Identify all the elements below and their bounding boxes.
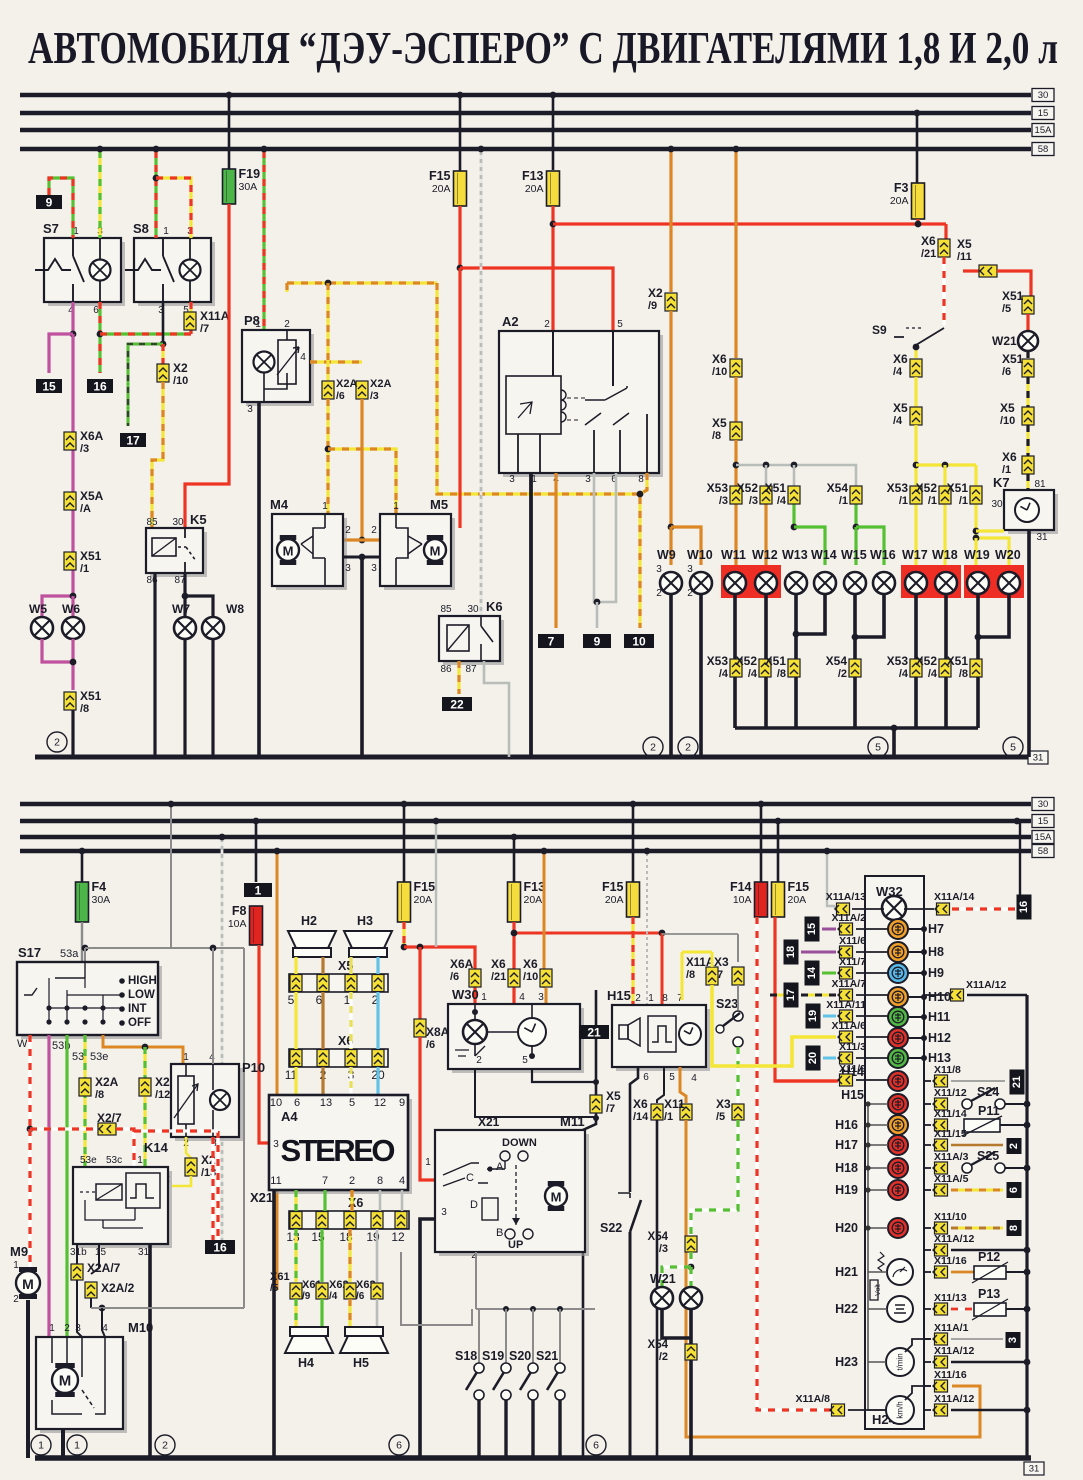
svg-text:4: 4 bbox=[519, 992, 525, 1003]
svg-text:2: 2 bbox=[476, 1055, 482, 1066]
svg-text:/1: /1 bbox=[899, 495, 908, 507]
svg-text:P10: P10 bbox=[242, 1060, 265, 1075]
svg-text:/5: /5 bbox=[716, 1111, 725, 1123]
svg-text:15: 15 bbox=[95, 1247, 107, 1258]
svg-text:X11/16: X11/16 bbox=[934, 1369, 967, 1381]
svg-text:F15: F15 bbox=[602, 880, 624, 894]
svg-text:H22: H22 bbox=[835, 1302, 858, 1316]
svg-text:30: 30 bbox=[172, 517, 184, 528]
svg-text:X11A/1: X11A/1 bbox=[934, 1322, 969, 1334]
svg-text:/2: /2 bbox=[838, 668, 847, 680]
svg-text:3: 3 bbox=[273, 1139, 279, 1150]
svg-text:3: 3 bbox=[441, 1207, 447, 1218]
svg-text:X6: X6 bbox=[523, 957, 538, 971]
svg-text:S7: S7 bbox=[43, 221, 59, 236]
svg-text:H16: H16 bbox=[835, 1118, 858, 1132]
svg-text:W9: W9 bbox=[657, 548, 676, 562]
svg-text:58: 58 bbox=[1038, 144, 1049, 155]
svg-text:/7: /7 bbox=[606, 1103, 615, 1115]
svg-text:F13: F13 bbox=[522, 169, 544, 183]
svg-text:H20: H20 bbox=[835, 1221, 858, 1235]
svg-text:/9: /9 bbox=[302, 1291, 311, 1302]
svg-text:X5: X5 bbox=[1000, 401, 1015, 415]
svg-text:F14: F14 bbox=[730, 880, 752, 894]
svg-text:/4: /4 bbox=[899, 668, 909, 680]
svg-text:X6: X6 bbox=[921, 234, 936, 248]
svg-text:/4: /4 bbox=[893, 366, 903, 378]
svg-text:15A: 15A bbox=[1035, 125, 1053, 136]
svg-text:W10: W10 bbox=[687, 548, 713, 562]
svg-text:K14: K14 bbox=[144, 1140, 169, 1155]
svg-text:X52: X52 bbox=[916, 481, 938, 495]
svg-text:2: 2 bbox=[687, 588, 693, 599]
svg-text:8: 8 bbox=[638, 474, 644, 485]
svg-text:X11A/7: X11A/7 bbox=[832, 978, 867, 990]
svg-text:30A: 30A bbox=[92, 894, 111, 906]
svg-text:X11/6: X11/6 bbox=[839, 935, 866, 947]
svg-text:/4: /4 bbox=[748, 668, 758, 680]
svg-text:F3: F3 bbox=[894, 181, 909, 195]
svg-text:H10: H10 bbox=[928, 990, 951, 1004]
svg-text:X5: X5 bbox=[957, 237, 972, 251]
svg-text:X11/12: X11/12 bbox=[934, 1087, 967, 1099]
svg-text:H21: H21 bbox=[835, 1265, 858, 1279]
svg-text:20A: 20A bbox=[525, 183, 544, 195]
svg-text:4: 4 bbox=[691, 1073, 697, 1084]
svg-text:1: 1 bbox=[481, 992, 487, 1003]
svg-text:P11: P11 bbox=[978, 1104, 1000, 1118]
svg-text:X6: X6 bbox=[633, 1097, 648, 1111]
svg-text:9: 9 bbox=[399, 1097, 405, 1109]
svg-text:X53: X53 bbox=[887, 654, 909, 668]
svg-text:H8: H8 bbox=[928, 945, 944, 959]
svg-text:14: 14 bbox=[806, 966, 818, 979]
svg-text:12: 12 bbox=[391, 1230, 405, 1244]
svg-text:H17: H17 bbox=[835, 1138, 858, 1152]
svg-text:31: 31 bbox=[1036, 532, 1048, 543]
svg-text:17: 17 bbox=[126, 434, 140, 448]
svg-text:X11/9: X11/9 bbox=[839, 1063, 866, 1075]
svg-text:X11A/12: X11A/12 bbox=[934, 1233, 974, 1245]
svg-text:/8: /8 bbox=[959, 668, 968, 680]
svg-text:85: 85 bbox=[440, 604, 452, 615]
svg-text:2: 2 bbox=[650, 742, 656, 754]
svg-text:4: 4 bbox=[399, 1175, 405, 1187]
svg-text:M9: M9 bbox=[10, 1244, 28, 1259]
svg-text:8: 8 bbox=[1008, 1225, 1020, 1231]
svg-text:5: 5 bbox=[288, 993, 295, 1007]
svg-text:/14: /14 bbox=[633, 1111, 649, 1123]
svg-text:X11A/14: X11A/14 bbox=[934, 891, 974, 903]
svg-text:3: 3 bbox=[345, 563, 351, 574]
svg-text:W18: W18 bbox=[932, 548, 958, 562]
svg-text:/3: /3 bbox=[659, 1243, 668, 1255]
svg-text:6: 6 bbox=[1008, 1187, 1020, 1193]
svg-text:/1: /1 bbox=[839, 495, 848, 507]
svg-text:X11A/11: X11A/11 bbox=[826, 999, 866, 1011]
svg-text:20A: 20A bbox=[890, 195, 909, 207]
svg-text:/1: /1 bbox=[928, 495, 937, 507]
svg-text:W7: W7 bbox=[172, 602, 190, 616]
svg-text:/6: /6 bbox=[1002, 366, 1011, 378]
svg-text:X11A/6: X11A/6 bbox=[832, 1020, 867, 1032]
svg-text:/8: /8 bbox=[95, 1089, 104, 1101]
svg-text:4: 4 bbox=[102, 1323, 108, 1334]
svg-text:3: 3 bbox=[371, 563, 377, 574]
svg-text:M: M bbox=[283, 544, 294, 559]
svg-text:A2: A2 bbox=[502, 314, 519, 329]
svg-text:W5: W5 bbox=[29, 602, 47, 616]
svg-text:S22: S22 bbox=[600, 1221, 622, 1235]
svg-text:H18: H18 bbox=[835, 1161, 858, 1175]
svg-text:/A: /A bbox=[80, 503, 91, 515]
svg-text:20A: 20A bbox=[524, 894, 543, 906]
svg-text:H23: H23 bbox=[835, 1355, 858, 1369]
svg-text:3: 3 bbox=[656, 564, 662, 575]
svg-text:P13: P13 bbox=[978, 1287, 1000, 1301]
svg-text:12: 12 bbox=[374, 1097, 386, 1109]
svg-text:M: M bbox=[551, 1190, 562, 1205]
svg-text:8: 8 bbox=[662, 993, 668, 1004]
svg-text:D: D bbox=[470, 1199, 478, 1211]
svg-text:K6: K6 bbox=[486, 599, 503, 614]
svg-text:X6: X6 bbox=[348, 1196, 363, 1210]
svg-text:16: 16 bbox=[213, 1241, 227, 1255]
svg-text:3: 3 bbox=[75, 1323, 81, 1334]
svg-text:/10: /10 bbox=[523, 971, 538, 983]
svg-text:H15: H15 bbox=[841, 1088, 864, 1102]
svg-text:X51: X51 bbox=[1002, 352, 1024, 366]
svg-text:2: 2 bbox=[349, 1175, 355, 1187]
svg-text:16: 16 bbox=[93, 380, 107, 394]
svg-text:W13: W13 bbox=[782, 548, 808, 562]
svg-text:4: 4 bbox=[300, 352, 306, 363]
svg-text:1: 1 bbox=[255, 884, 262, 898]
svg-text:A: A bbox=[496, 1161, 504, 1173]
svg-text:19: 19 bbox=[807, 1010, 819, 1022]
svg-text:/8: /8 bbox=[712, 430, 721, 442]
svg-text:/11: /11 bbox=[957, 251, 972, 263]
svg-text:F15: F15 bbox=[429, 169, 451, 183]
svg-text:1: 1 bbox=[38, 1440, 44, 1452]
svg-text:X11/10: X11/10 bbox=[934, 1211, 967, 1223]
svg-text:1: 1 bbox=[393, 501, 399, 512]
svg-text:F15: F15 bbox=[788, 880, 810, 894]
svg-text:X11/16: X11/16 bbox=[934, 1255, 967, 1267]
svg-text:2: 2 bbox=[64, 1323, 70, 1334]
svg-text:X11/13: X11/13 bbox=[934, 1292, 967, 1304]
svg-text:H15: H15 bbox=[607, 988, 631, 1003]
svg-text:X52: X52 bbox=[736, 654, 758, 668]
svg-text:5: 5 bbox=[1010, 742, 1016, 754]
svg-text:M: M bbox=[59, 1373, 72, 1390]
svg-text:X11/7: X11/7 bbox=[839, 956, 866, 968]
svg-text:10: 10 bbox=[632, 635, 646, 649]
svg-text:X11A/13: X11A/13 bbox=[826, 891, 866, 903]
svg-text:S20: S20 bbox=[509, 1349, 531, 1363]
svg-text:1: 1 bbox=[13, 1260, 19, 1271]
svg-text:F13: F13 bbox=[524, 880, 546, 894]
svg-text:W6: W6 bbox=[62, 602, 80, 616]
svg-text:X53: X53 bbox=[887, 481, 909, 495]
svg-text:X11A: X11A bbox=[200, 309, 230, 323]
svg-text:W17: W17 bbox=[902, 548, 928, 562]
svg-text:X11A/2: X11A/2 bbox=[832, 912, 867, 924]
svg-text:1: 1 bbox=[137, 1155, 143, 1166]
svg-text:1: 1 bbox=[425, 1157, 431, 1168]
svg-text:15A: 15A bbox=[1035, 832, 1053, 843]
svg-text:АВТОМОБИЛЯ “ДЭУ-ЭСПЕРО” С ДВИГ: АВТОМОБИЛЯ “ДЭУ-ЭСПЕРО” С ДВИГАТЕЛЯМИ 1,… bbox=[28, 23, 1058, 73]
svg-text:53a: 53a bbox=[60, 948, 79, 960]
svg-text:30: 30 bbox=[1038, 90, 1049, 101]
svg-text:/6: /6 bbox=[450, 971, 459, 983]
svg-text:30A: 30A bbox=[239, 181, 258, 193]
svg-text:53e: 53e bbox=[80, 1155, 97, 1166]
svg-text:2: 2 bbox=[54, 737, 60, 749]
svg-text:20A: 20A bbox=[605, 894, 624, 906]
svg-text:6: 6 bbox=[93, 305, 99, 316]
svg-text:/8: /8 bbox=[80, 703, 89, 715]
svg-text:X8A: X8A bbox=[426, 1025, 450, 1039]
svg-text:W19: W19 bbox=[964, 548, 990, 562]
svg-text:X52: X52 bbox=[737, 481, 759, 495]
svg-text:X51: X51 bbox=[80, 689, 102, 703]
svg-text:1: 1 bbox=[183, 1052, 189, 1063]
svg-text:INT: INT bbox=[128, 1003, 147, 1015]
svg-text:30: 30 bbox=[467, 604, 479, 615]
svg-text:15: 15 bbox=[1038, 816, 1049, 827]
svg-text:/9: /9 bbox=[648, 300, 657, 312]
svg-text:X5A: X5A bbox=[80, 489, 104, 503]
svg-text:C: C bbox=[466, 1172, 474, 1184]
svg-text:X51: X51 bbox=[947, 654, 969, 668]
svg-text:X2: X2 bbox=[648, 286, 663, 300]
svg-text:/4: /4 bbox=[928, 668, 938, 680]
svg-text:X2: X2 bbox=[155, 1075, 170, 1089]
svg-text:3: 3 bbox=[687, 564, 693, 575]
svg-text:HIGH: HIGH bbox=[128, 975, 157, 987]
svg-text:H9: H9 bbox=[928, 966, 944, 980]
svg-text:UP: UP bbox=[508, 1239, 523, 1251]
svg-text:/6: /6 bbox=[356, 1291, 365, 1302]
svg-text:H2: H2 bbox=[301, 914, 317, 928]
svg-text:/1: /1 bbox=[664, 1111, 673, 1123]
svg-text:6: 6 bbox=[593, 1440, 599, 1452]
svg-text:/8: /8 bbox=[777, 668, 786, 680]
svg-text:W8: W8 bbox=[226, 602, 244, 616]
svg-text:S8: S8 bbox=[133, 221, 149, 236]
svg-text:3: 3 bbox=[585, 474, 591, 485]
svg-text:P12: P12 bbox=[978, 1250, 1000, 1264]
svg-text:X51: X51 bbox=[765, 654, 787, 668]
svg-text:X11/15: X11/15 bbox=[934, 1128, 967, 1140]
svg-text:X53: X53 bbox=[707, 481, 729, 495]
svg-text:86: 86 bbox=[440, 664, 452, 675]
svg-text:9: 9 bbox=[46, 196, 53, 210]
svg-text:1: 1 bbox=[49, 1323, 55, 1334]
svg-text:15: 15 bbox=[42, 380, 56, 394]
svg-text:31b: 31b bbox=[70, 1247, 87, 1258]
svg-text:X2: X2 bbox=[173, 361, 188, 375]
svg-text:K5: K5 bbox=[190, 512, 207, 527]
svg-text:X51: X51 bbox=[1002, 289, 1024, 303]
svg-text:W21: W21 bbox=[650, 1272, 676, 1286]
svg-text:/3: /3 bbox=[80, 443, 89, 455]
svg-text:X2A: X2A bbox=[336, 378, 357, 390]
svg-text:S17: S17 bbox=[18, 945, 41, 960]
svg-text:3: 3 bbox=[509, 474, 515, 485]
svg-text:30: 30 bbox=[1038, 799, 1049, 810]
svg-text:20A: 20A bbox=[432, 183, 451, 195]
svg-text:X5: X5 bbox=[893, 401, 908, 415]
svg-text:/3: /3 bbox=[719, 495, 728, 507]
svg-text:X2A/2: X2A/2 bbox=[101, 1281, 135, 1295]
svg-text:5: 5 bbox=[617, 319, 623, 330]
svg-text:2: 2 bbox=[284, 319, 290, 330]
svg-text:M: M bbox=[430, 544, 441, 559]
svg-text:M5: M5 bbox=[430, 497, 448, 512]
svg-text:/8: /8 bbox=[686, 969, 695, 981]
svg-text:53c: 53c bbox=[106, 1155, 122, 1166]
svg-text:X11: X11 bbox=[664, 1097, 685, 1111]
svg-text:X11A/12: X11A/12 bbox=[934, 1345, 974, 1357]
svg-text:21: 21 bbox=[587, 1026, 601, 1040]
svg-text:21: 21 bbox=[1011, 1076, 1023, 1088]
svg-text:H5: H5 bbox=[353, 1356, 369, 1370]
svg-text:H11: H11 bbox=[928, 1010, 950, 1024]
svg-text:2: 2 bbox=[656, 588, 662, 599]
svg-text:13: 13 bbox=[320, 1097, 332, 1109]
svg-text:X21: X21 bbox=[250, 1190, 273, 1205]
svg-text:H4: H4 bbox=[298, 1356, 314, 1370]
svg-text:/1: /1 bbox=[959, 495, 968, 507]
svg-text:2: 2 bbox=[685, 742, 691, 754]
svg-text:3: 3 bbox=[247, 404, 253, 415]
svg-text:S9: S9 bbox=[872, 323, 887, 337]
svg-text:6: 6 bbox=[396, 1440, 402, 1452]
svg-text:2: 2 bbox=[13, 1294, 19, 1305]
svg-text:58: 58 bbox=[1038, 846, 1049, 857]
svg-text:7: 7 bbox=[548, 635, 555, 649]
svg-text:/21: /21 bbox=[491, 971, 506, 983]
svg-text:STEREO: STEREO bbox=[281, 1133, 396, 1168]
svg-text:X51: X51 bbox=[765, 481, 787, 495]
svg-text:km/h: km/h bbox=[896, 1401, 905, 1418]
svg-text:6: 6 bbox=[294, 1097, 300, 1109]
svg-text:W30: W30 bbox=[452, 987, 479, 1002]
svg-text:S21: S21 bbox=[536, 1349, 558, 1363]
svg-text:X6: X6 bbox=[712, 352, 727, 366]
svg-text:X6A: X6A bbox=[80, 429, 104, 443]
svg-text:X21: X21 bbox=[478, 1115, 500, 1129]
svg-text:/2: /2 bbox=[659, 1351, 668, 1363]
svg-text:A4: A4 bbox=[281, 1109, 298, 1124]
svg-text:/21: /21 bbox=[921, 248, 936, 260]
svg-text:X6: X6 bbox=[1002, 450, 1017, 464]
svg-text:2: 2 bbox=[162, 1440, 168, 1452]
svg-text:X51: X51 bbox=[80, 549, 102, 563]
svg-text:2: 2 bbox=[345, 525, 351, 536]
svg-text:1: 1 bbox=[648, 993, 654, 1004]
svg-text:F19: F19 bbox=[239, 167, 261, 181]
svg-text:1: 1 bbox=[163, 226, 169, 237]
svg-text:B: B bbox=[496, 1227, 503, 1239]
svg-text:K7: K7 bbox=[993, 475, 1010, 490]
svg-text:20A: 20A bbox=[414, 894, 433, 906]
svg-text:/6: /6 bbox=[336, 390, 345, 402]
svg-text:H19: H19 bbox=[835, 1183, 858, 1197]
svg-text:/6: /6 bbox=[426, 1039, 435, 1051]
svg-text:30: 30 bbox=[991, 499, 1003, 510]
svg-text:3: 3 bbox=[1007, 1337, 1019, 1343]
svg-text:1: 1 bbox=[255, 319, 261, 330]
svg-text:M11: M11 bbox=[560, 1114, 585, 1129]
svg-text:X54: X54 bbox=[648, 1339, 669, 1351]
svg-text:H12: H12 bbox=[928, 1031, 951, 1045]
svg-text:S19: S19 bbox=[482, 1349, 504, 1363]
svg-text:X11/3: X11/3 bbox=[839, 1041, 866, 1053]
svg-text:W21: W21 bbox=[992, 334, 1017, 348]
svg-text:/4: /4 bbox=[893, 415, 903, 427]
svg-text:X2A: X2A bbox=[95, 1075, 119, 1089]
svg-text:X5: X5 bbox=[606, 1089, 621, 1103]
svg-text:7: 7 bbox=[322, 1175, 328, 1187]
svg-text:t/min: t/min bbox=[896, 1353, 905, 1370]
svg-text:81: 81 bbox=[1034, 479, 1046, 490]
svg-text:X54: X54 bbox=[648, 1231, 669, 1243]
svg-text:W: W bbox=[17, 1038, 28, 1050]
svg-text:/3: /3 bbox=[370, 390, 379, 402]
svg-text:X11A/3: X11A/3 bbox=[934, 1151, 969, 1163]
svg-text:85: 85 bbox=[146, 517, 158, 528]
svg-text:M: M bbox=[22, 1276, 34, 1292]
svg-text:X3: X3 bbox=[716, 1097, 731, 1111]
svg-text:F4: F4 bbox=[92, 880, 107, 894]
svg-text:22: 22 bbox=[450, 698, 464, 712]
svg-text:X61: X61 bbox=[270, 1271, 290, 1283]
svg-text:2: 2 bbox=[1008, 1143, 1020, 1149]
svg-text:8: 8 bbox=[377, 1175, 383, 1187]
svg-text:S23: S23 bbox=[716, 997, 738, 1011]
svg-text:W15: W15 bbox=[841, 548, 867, 562]
svg-text:20: 20 bbox=[807, 1052, 819, 1064]
svg-text:X53: X53 bbox=[707, 654, 729, 668]
svg-text:/3: /3 bbox=[749, 495, 758, 507]
svg-text:3: 3 bbox=[538, 992, 544, 1003]
svg-text:OFF: OFF bbox=[128, 1017, 151, 1029]
svg-text:F15: F15 bbox=[414, 880, 436, 894]
svg-text:M10: M10 bbox=[128, 1320, 153, 1335]
svg-text:/10: /10 bbox=[712, 366, 727, 378]
svg-text:/4: /4 bbox=[719, 668, 729, 680]
svg-text:1: 1 bbox=[74, 1440, 80, 1452]
svg-text:X11A: X11A bbox=[686, 957, 714, 969]
svg-text:11: 11 bbox=[270, 1175, 281, 1187]
svg-text:X54: X54 bbox=[826, 654, 848, 668]
svg-text:H3: H3 bbox=[357, 914, 373, 928]
svg-text:X11A/12: X11A/12 bbox=[934, 1393, 974, 1405]
svg-text:S18: S18 bbox=[455, 1349, 477, 1363]
svg-text:2: 2 bbox=[635, 993, 641, 1004]
svg-text:/1: /1 bbox=[80, 563, 89, 575]
svg-text:X11A/12: X11A/12 bbox=[966, 979, 1006, 991]
svg-text:F8: F8 bbox=[232, 904, 247, 918]
svg-text:/4: /4 bbox=[777, 495, 787, 507]
svg-text:5: 5 bbox=[349, 1097, 355, 1109]
svg-text:/4: /4 bbox=[329, 1291, 338, 1302]
svg-text:X6: X6 bbox=[893, 352, 908, 366]
svg-text:9: 9 bbox=[594, 635, 601, 649]
